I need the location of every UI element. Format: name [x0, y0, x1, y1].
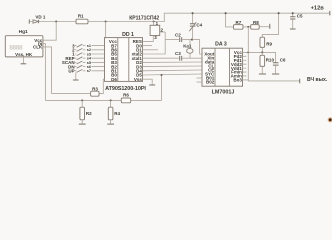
- svg-text:R4: R4: [114, 111, 120, 116]
- wire Bo3 stub: [243, 79, 249, 81]
- wire R9 to Vcc node: [261, 47, 263, 52]
- button REP net s4: [65, 56, 104, 61]
- button DN net s6: [68, 64, 104, 69]
- svg-text:C5: C5: [297, 14, 303, 19]
- svg-text:DD 1: DD 1: [122, 32, 134, 38]
- button SCAN net s5: [62, 60, 105, 65]
- resistor R3: [91, 87, 99, 97]
- ground Vss: [149, 84, 155, 86]
- svg-text:Hg1: Hg1: [19, 29, 28, 35]
- wire U1 pin3 to RES: [143, 36, 154, 42]
- capacitor C5: [290, 13, 303, 28]
- node junction DD1 Vcc: [105, 20, 107, 22]
- diode VD1: [33, 14, 46, 23]
- wire to U1 pin1: [153, 22, 155, 26]
- ground under Hg1: [22, 57, 24, 64]
- wire B01 stub: [197, 77, 203, 79]
- wire rail down to R7: [226, 13, 234, 27]
- capacitor C4 trimmer: [189, 13, 202, 39]
- resistor R1: [76, 13, 88, 23]
- node output terminal: [299, 79, 301, 84]
- wire line N: [45, 99, 121, 101]
- wire to Hg1 Vcc: [43, 22, 56, 41]
- resistor R10: [260, 52, 274, 66]
- wire D5 to SYC with branch to line N: [143, 74, 203, 100]
- svg-text:Vss: Vss: [134, 77, 143, 82]
- svg-text:Ka1: Ka1: [183, 44, 192, 49]
- node junction R7/R8: [247, 26, 249, 28]
- svg-text:R3: R3: [92, 87, 98, 92]
- ground R4: [107, 123, 114, 125]
- svg-text:VD 1: VD 1: [35, 14, 46, 19]
- wire Vss to ground: [143, 79, 153, 84]
- svg-text:s7: s7: [87, 69, 91, 73]
- wire output line to RF out: [248, 27, 299, 81]
- resistor R4: [108, 100, 120, 123]
- svg-text:R10: R10: [266, 58, 275, 63]
- wire Hg1 CLK down to line M: [43, 47, 52, 94]
- wire D4 to CE: [143, 69, 203, 72]
- wire D3 to CL: [143, 65, 203, 68]
- resistor R9: [260, 37, 273, 47]
- svg-text:CLK: CLK: [33, 45, 43, 50]
- node junction Hg1 Vcc: [55, 20, 57, 22]
- ground C5: [290, 28, 296, 30]
- wire rail to +12V: [88, 13, 330, 21]
- button 2 net s2: [72, 47, 104, 52]
- svg-text:R7: R7: [236, 20, 242, 25]
- svg-text:C4: C4: [196, 22, 202, 27]
- wire D1 stub: [143, 49, 159, 51]
- wire R8 end tick: [259, 26, 270, 28]
- svg-text:R9: R9: [266, 41, 272, 46]
- wire D6 loop down to R3: [99, 79, 105, 93]
- IC U1 KR1171SP42: [129, 16, 163, 41]
- resistor R8: [251, 20, 260, 29]
- button 1 net s3: [72, 52, 104, 57]
- node junction R2: [81, 99, 83, 101]
- crystal Ka1: [183, 40, 193, 59]
- ground R2: [79, 123, 86, 125]
- svg-text:+12в: +12в: [311, 6, 325, 12]
- wire xtal2 up to crystal line: [143, 32, 166, 54]
- node +12V terminal: [329, 11, 331, 16]
- node junction R4: [110, 99, 112, 101]
- display Hg1: [5, 29, 43, 57]
- resistor R6: [121, 93, 130, 103]
- svg-text:C3: C3: [175, 51, 181, 56]
- svg-text:C2: C2: [175, 32, 181, 37]
- ground under buttons: [75, 72, 77, 79]
- resistor R2: [80, 100, 92, 123]
- wire rail down to R9: [262, 13, 278, 37]
- wire DA3 right pin stubs: [243, 56, 247, 76]
- svg-text:R8: R8: [253, 20, 259, 25]
- capacitor C6: [273, 58, 286, 74]
- button UP net s7: [68, 68, 104, 73]
- capacitor C2: [175, 32, 182, 42]
- svg-text:R2: R2: [86, 111, 92, 116]
- wire line N right to D5 branch: [131, 99, 162, 101]
- wire Vcc node line: [243, 52, 276, 62]
- artifact blot bottom right corner: [328, 117, 332, 122]
- svg-text:8888: 8888: [9, 44, 23, 51]
- IC DA3 LM7001J: [202, 42, 243, 96]
- svg-text:R1: R1: [78, 13, 84, 18]
- node input terminal left: [28, 19, 30, 23]
- node junction C4/crystal line: [191, 39, 193, 41]
- wire Hg1 DI down to line N: [43, 44, 46, 101]
- svg-text:C6: C6: [280, 58, 286, 63]
- wire B02 stub: [197, 81, 203, 83]
- svg-text:LM7001J: LM7001J: [212, 90, 235, 96]
- wire U1 pin2: [160, 31, 166, 33]
- svg-text:Bo3: Bo3: [233, 78, 242, 83]
- wire crystal bottom line xtal1 to Xin: [143, 57, 203, 59]
- wire D2 to data: [143, 61, 203, 63]
- node junction vertical cross: [247, 51, 249, 53]
- capacitor C3: [175, 51, 182, 60]
- wire D0 stub: [143, 45, 153, 47]
- svg-text:DA 3: DA 3: [215, 42, 227, 48]
- svg-text:AT90S1200-10Pl: AT90S1200-10Pl: [105, 86, 146, 92]
- svg-text:B02: B02: [206, 80, 215, 85]
- svg-text:D6: D6: [111, 77, 117, 82]
- ground C6: [272, 73, 279, 75]
- node junction U1 pin1: [153, 20, 155, 22]
- wire crystal top line to Xout: [165, 40, 202, 54]
- svg-text:ВЧ вых.: ВЧ вых.: [307, 77, 328, 83]
- IC DD1 AT90S1200: [105, 32, 147, 92]
- ground R10: [259, 73, 266, 75]
- node junction R9/R10: [261, 51, 263, 53]
- resistor R7: [234, 20, 244, 29]
- svg-text:UP: UP: [68, 68, 74, 73]
- wire rail left segment: [29, 21, 76, 23]
- wire line M: [52, 93, 91, 95]
- wire R10 down: [261, 66, 263, 73]
- svg-text:Vss, HK: Vss, HK: [15, 52, 33, 57]
- wire to DD1 Vcc: [105, 22, 106, 42]
- wire R7-R8: [243, 26, 251, 28]
- svg-text:R6: R6: [123, 93, 129, 98]
- node junction rail C4: [192, 12, 194, 14]
- button 3 net s1: [72, 43, 104, 48]
